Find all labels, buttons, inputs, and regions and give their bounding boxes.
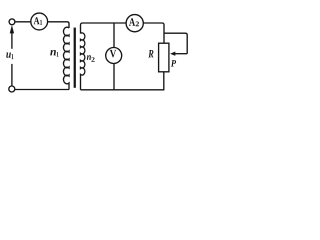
label A1: 1: [40, 20, 42, 25]
label A2: 2: [136, 22, 139, 27]
voltage arrow u1 shaft upper: [11, 33, 13, 49]
wire V top lead: [113, 23, 115, 48]
wire primary bottom lead: [68, 84, 70, 90]
label P: [171, 60, 176, 66]
label A1: A: [34, 17, 40, 24]
voltmeter V: [106, 48, 122, 64]
wire V bottom lead: [113, 64, 115, 90]
wire A1 to primary: [48, 22, 70, 28]
label R: [148, 50, 153, 57]
label n1: n: [50, 50, 56, 55]
wire wiper feed branch: [164, 33, 187, 54]
label u1: 1: [12, 54, 14, 59]
terminal bottom: [9, 86, 15, 92]
label u1: u: [6, 53, 11, 58]
wire R bottom lead: [163, 72, 165, 90]
wire bottom-right: [81, 89, 165, 91]
ammeter A2: [126, 15, 143, 32]
wire secondary top lead: [81, 23, 127, 34]
voltage arrow u1 shaft lower: [11, 64, 13, 86]
label n2: 2: [91, 57, 94, 62]
terminal top: [9, 19, 15, 25]
wire A2 to rheostat corner: [143, 23, 164, 43]
transformer core: [74, 28, 76, 88]
ammeter A1: [31, 13, 48, 30]
label n1: 1: [57, 52, 59, 57]
label A2: A: [129, 18, 135, 26]
label n2: n: [87, 55, 91, 60]
wire top-left: [15, 21, 31, 23]
wire secondary bottom lead: [80, 76, 82, 90]
resistor R box: [159, 43, 169, 72]
voltage arrow u1 head: [10, 26, 14, 34]
wire bottom-left: [15, 89, 69, 91]
wire wiper horizontal: [174, 53, 188, 55]
transformer secondary winding n2: [81, 33, 85, 76]
label V: [110, 50, 116, 58]
wiper arrow head: [170, 52, 175, 56]
transformer primary winding n1: [63, 27, 69, 84]
